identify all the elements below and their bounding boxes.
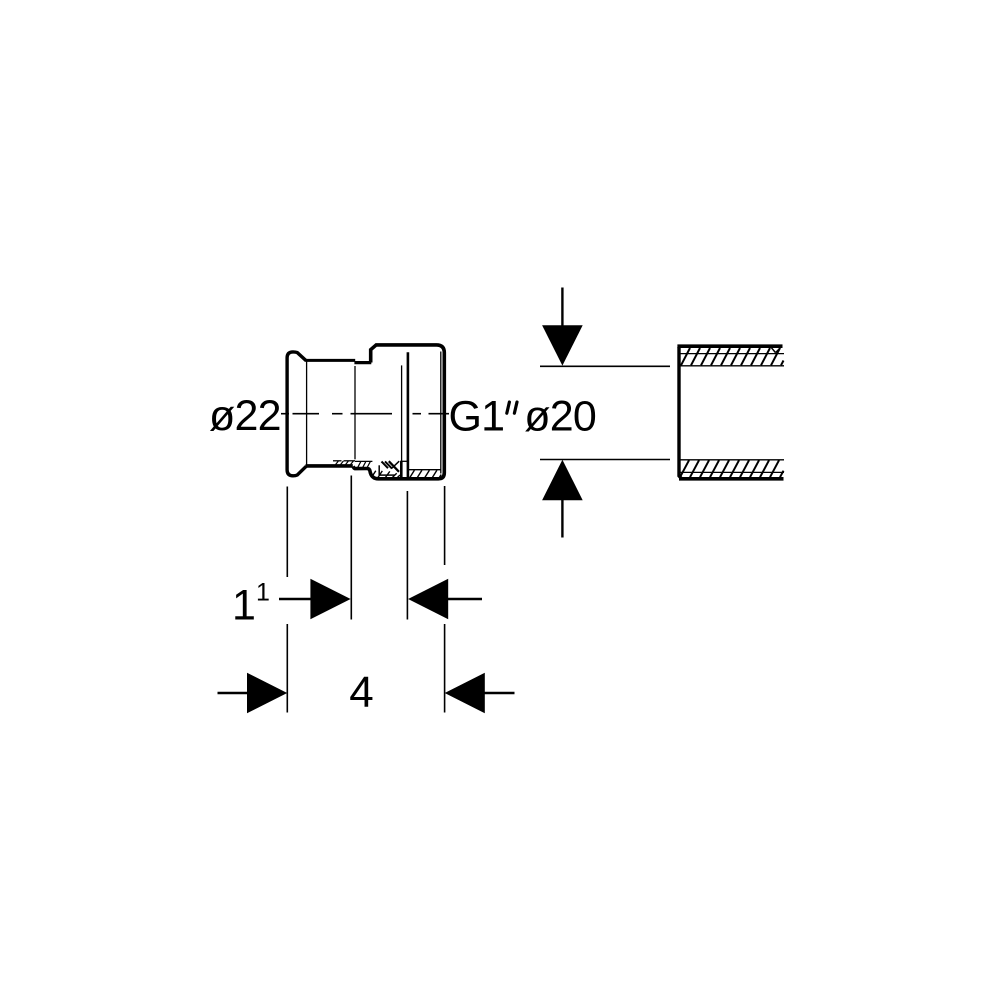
pipe outer wall bottom bbox=[679, 477, 784, 481]
socket section hatch bbox=[336, 461, 371, 468]
pipe bore line bottom bbox=[679, 459, 784, 461]
dimension d20 arrow bottom bbox=[542, 460, 583, 500]
thread bore line thin bbox=[401, 365, 403, 461]
extension line E4 bbox=[444, 486, 446, 713]
svg-text:1: 1 bbox=[232, 582, 256, 630]
socket section inner line bbox=[333, 460, 372, 463]
dimension 4 tail right bbox=[484, 692, 515, 694]
svg-text:4: 4 bbox=[349, 668, 373, 717]
body outline bbox=[353, 345, 444, 479]
pipe wall hatch bottom bbox=[680, 460, 784, 477]
press socket bottom wall bbox=[306, 464, 353, 468]
pipe bore line top bbox=[679, 365, 784, 367]
thread bore line thick bbox=[407, 352, 410, 477]
dimension 1 tail left bbox=[279, 598, 311, 600]
seal ring detail bbox=[400, 461, 409, 477]
svg-text:G1: G1 bbox=[449, 393, 505, 441]
pipe layer line bottom bbox=[680, 471, 784, 473]
dimension 1 tail right bbox=[448, 598, 482, 600]
bell tangent line bbox=[306, 362, 308, 465]
press socket top wall bbox=[306, 359, 356, 362]
thread root line bbox=[409, 469, 441, 471]
dimension line d20 top bbox=[540, 365, 670, 367]
thread chamfer detail bbox=[379, 461, 399, 475]
label G1 double prime bbox=[507, 402, 517, 413]
pipe wall hatch top bbox=[681, 348, 784, 365]
body section hatch bbox=[372, 470, 442, 477]
extension line E2 bbox=[350, 476, 352, 620]
press end bell bbox=[287, 352, 306, 476]
dimension line d20 bottom bbox=[540, 459, 670, 461]
pipe layer line top bbox=[680, 353, 784, 355]
dimension 1 arrow left bbox=[310, 579, 350, 620]
dimension d20 tail bottom bbox=[561, 500, 563, 538]
dimension 4 tail left bbox=[218, 692, 249, 694]
pipe left edge bbox=[679, 347, 682, 479]
centerline bbox=[281, 413, 449, 415]
pipe outer wall top bbox=[677, 344, 782, 348]
pipe break notch bbox=[772, 348, 781, 353]
extension line E3 bbox=[406, 491, 408, 620]
pipe stop line bbox=[354, 366, 356, 459]
extension line E1 bbox=[286, 487, 288, 713]
dimension 4 arrow left bbox=[247, 673, 287, 714]
svg-text:1: 1 bbox=[256, 579, 270, 607]
svg-text:ø20: ø20 bbox=[524, 393, 596, 441]
svg-text:ø22: ø22 bbox=[209, 392, 281, 440]
body inner edge line bbox=[440, 352, 442, 474]
dimension d20 tail top bbox=[561, 288, 563, 327]
dimension d20 arrow top bbox=[542, 325, 583, 365]
dimension 4 arrow right bbox=[445, 673, 485, 714]
press socket top wall jog bbox=[354, 361, 371, 364]
dimension 1 arrow right bbox=[408, 579, 448, 620]
